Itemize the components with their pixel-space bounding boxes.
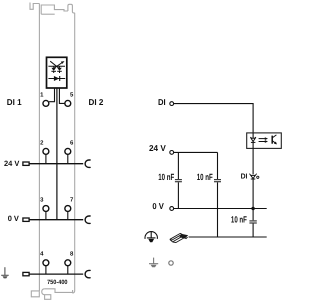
schematic input terminal DI — [158, 97, 174, 107]
status LED DI — [249, 174, 256, 179]
svg-text:5: 5 — [70, 92, 74, 99]
schematic terminal 0V — [152, 201, 173, 211]
status indicator box — [47, 57, 67, 88]
wire DI to optocoupler — [174, 104, 253, 133]
module bottom profile left foot — [31, 291, 39, 297]
0V rail — [174, 208, 267, 210]
junction node 0V — [251, 207, 254, 210]
svg-text:7: 7 — [70, 196, 74, 203]
optocoupler coupling arrows — [259, 139, 266, 142]
LED channel indicator symbols inside box — [48, 66, 65, 73]
wire stem terminal 3 — [45, 212, 47, 220]
optocoupler phototransistor — [271, 136, 273, 144]
spring contact row 3 — [85, 216, 90, 223]
svg-text:0 V: 0 V — [8, 214, 20, 223]
module top profile post — [68, 4, 75, 13]
svg-text:10 nF: 10 nF — [197, 172, 213, 182]
0V terminal marker rectangle — [23, 218, 29, 221]
wire stem terminal 4 — [45, 266, 47, 274]
svg-text:DI 2: DI 2 — [89, 97, 104, 107]
schematic terminal 24V — [149, 143, 174, 154]
svg-text:6: 6 — [70, 139, 74, 146]
legend circle symbol — [169, 261, 173, 265]
capacitor C2 plates — [214, 180, 221, 182]
svg-text:0 V: 0 V — [152, 201, 164, 211]
24V terminal marker rectangle — [23, 162, 29, 165]
svg-text:750-400: 750-400 — [47, 279, 68, 286]
24V field rail — [30, 163, 84, 165]
svg-text:3: 3 — [40, 196, 44, 203]
svg-text:1: 1 — [40, 92, 44, 99]
wire stem terminal 7 — [67, 212, 69, 220]
optocoupler LED — [250, 133, 256, 149]
terminal 7 — [65, 196, 74, 211]
svg-text:8: 8 — [70, 251, 74, 258]
svg-text:24 V: 24 V — [4, 159, 20, 168]
svg-text:DI 1: DI 1 — [7, 97, 22, 107]
24V wire — [174, 151, 218, 153]
indicator arrow diagonals — [50, 61, 62, 69]
earth terminal marker rectangle — [23, 272, 29, 275]
functional earth symbol left of row 4 — [1, 267, 9, 275]
power jumper contact blade — [170, 233, 186, 242]
terminal 6 — [65, 139, 74, 154]
branch wire capacitor C1 — [177, 152, 179, 208]
spring contact row 2 — [85, 160, 90, 167]
module body outline left edge — [38, 4, 40, 292]
terminal 4 — [40, 251, 49, 266]
terminal 8 — [65, 251, 74, 266]
terminal 5 — [65, 92, 74, 107]
module body outline right edge — [72, 13, 74, 293]
capacitor C3 wire — [252, 209, 254, 238]
wire stems from status box to terminals — [49, 88, 65, 103]
earth rail — [189, 236, 267, 238]
branch wire capacitor C2 — [217, 152, 219, 237]
terminal 1 — [40, 92, 49, 107]
spring contact row 4 — [85, 270, 90, 277]
capacitor C1 plates — [175, 180, 182, 182]
wire stem terminal 2 — [45, 154, 47, 163]
svg-text:10 nF: 10 nF — [231, 214, 247, 224]
optocoupler box U1 — [247, 133, 282, 149]
svg-text:24 V: 24 V — [149, 143, 166, 153]
wire stem terminal 6 — [67, 154, 69, 163]
svg-text:DI: DI — [158, 97, 166, 107]
terminal 3 — [40, 196, 49, 211]
module top profile latch tab — [30, 3, 39, 10]
earth field rail — [30, 273, 84, 275]
terminal 2 — [40, 139, 49, 154]
legend earth symbol — [149, 258, 158, 264]
module bottom profile slot and tab — [42, 289, 73, 300]
svg-text:2: 2 — [40, 139, 44, 146]
svg-text:10 nF: 10 nF — [158, 172, 174, 182]
diode inside status box — [48, 76, 65, 81]
center signal wire — [56, 88, 58, 220]
module top profile inner step — [41, 5, 68, 14]
LED indicator circle — [257, 176, 259, 178]
svg-text:DI: DI — [241, 171, 248, 180]
wire stem terminal 8 — [67, 266, 69, 274]
wire optocoupler to 0V rail — [252, 148, 254, 208]
0V field rail — [30, 219, 84, 221]
svg-text:4: 4 — [40, 251, 44, 258]
protective earth symbol — [145, 232, 157, 239]
capacitor C3 plates — [249, 221, 256, 223]
